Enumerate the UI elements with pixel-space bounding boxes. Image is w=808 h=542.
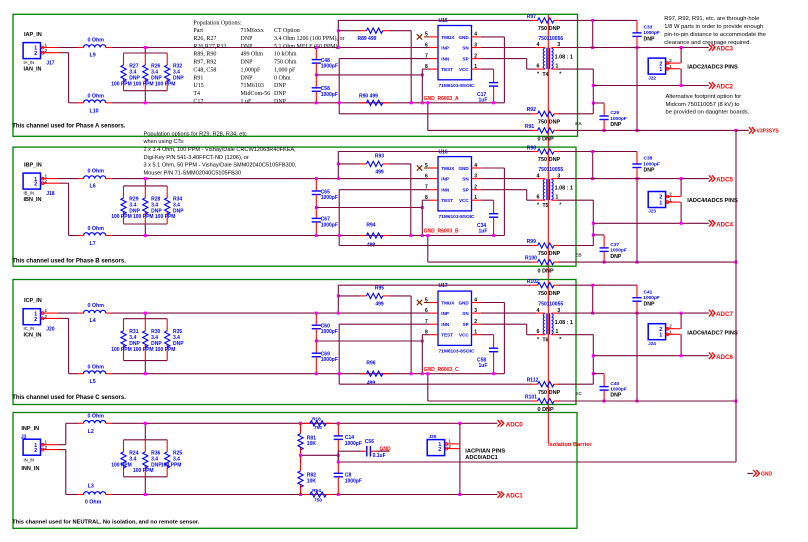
svg-text:C37: C37 bbox=[610, 242, 619, 248]
svg-text:100 PPM: 100 PPM bbox=[111, 214, 132, 220]
svg-text:4: 4 bbox=[474, 163, 477, 169]
svg-text:71M6xxx: 71M6xxx bbox=[241, 28, 264, 34]
svg-text:IADC4/IADC5 PINS: IADC4/IADC5 PINS bbox=[687, 198, 738, 204]
svg-text:This channel used for Phase C: This channel used for Phase C sensors. bbox=[12, 395, 126, 401]
svg-text:1000pF: 1000pF bbox=[643, 161, 660, 167]
svg-text:Mouser P/N 71-SMM02040C5105FB3: Mouser P/N 71-SMM02040C5105FB30 bbox=[144, 170, 242, 176]
svg-text:ADC7: ADC7 bbox=[716, 311, 733, 318]
svg-text:V3P3SYS: V3P3SYS bbox=[757, 129, 780, 135]
svg-text:ICN_IN: ICN_IN bbox=[24, 332, 42, 338]
svg-text:3.4 Ohm 1206 (100 PPM), or: 3.4 Ohm 1206 (100 PPM), or bbox=[274, 35, 345, 42]
svg-text:2: 2 bbox=[34, 448, 37, 454]
svg-text:ADC3: ADC3 bbox=[716, 46, 733, 53]
svg-text:GND: GND bbox=[761, 472, 773, 478]
svg-text:Digi-Key P/N 541-3.40FFCT-ND (: Digi-Key P/N 541-3.40FFCT-ND (1206), or bbox=[144, 155, 250, 161]
svg-text:C40: C40 bbox=[610, 381, 619, 387]
svg-text:ADC2: ADC2 bbox=[716, 84, 733, 91]
svg-text:DNP: DNP bbox=[644, 37, 655, 43]
svg-text:0 DNP: 0 DNP bbox=[538, 137, 555, 143]
svg-text:0 DNP: 0 DNP bbox=[538, 268, 555, 274]
svg-text:EB: EB bbox=[575, 253, 582, 258]
svg-text:INP: INP bbox=[441, 46, 449, 51]
svg-text:TMUX: TMUX bbox=[441, 35, 455, 40]
svg-text:100 PPM: 100 PPM bbox=[111, 81, 132, 87]
svg-text:VCC: VCC bbox=[459, 333, 469, 338]
svg-text:DNP: DNP bbox=[241, 36, 254, 42]
svg-text:1000pF: 1000pF bbox=[321, 195, 338, 201]
svg-text:1: 1 bbox=[474, 64, 477, 70]
svg-text:R97: R97 bbox=[527, 14, 536, 20]
svg-text:0 Ohm: 0 Ohm bbox=[88, 38, 105, 44]
svg-text:1000pF: 1000pF bbox=[345, 478, 362, 484]
svg-text:4: 4 bbox=[537, 308, 540, 314]
svg-text:GND_R6003_C: GND_R6003_C bbox=[424, 367, 459, 373]
svg-text:R26, R27: R26, R27 bbox=[193, 36, 216, 42]
svg-text:0 Ohm: 0 Ohm bbox=[85, 499, 102, 505]
svg-text:DNP: DNP bbox=[274, 91, 287, 97]
svg-text:R97, R92, R91, etc. are throug: R97, R92, R91, etc. are through-hole bbox=[664, 16, 759, 22]
svg-text:750110056: 750110056 bbox=[538, 36, 563, 42]
svg-text:T5: T5 bbox=[543, 203, 549, 209]
svg-text:1: 1 bbox=[474, 330, 477, 336]
svg-text:R90 499: R90 499 bbox=[359, 94, 378, 100]
svg-text:6: 6 bbox=[425, 42, 428, 48]
svg-text:L10: L10 bbox=[90, 108, 99, 114]
svg-text:SN: SN bbox=[462, 46, 469, 51]
svg-text:0 Ohm: 0 Ohm bbox=[88, 303, 105, 309]
svg-text:MidCom-56: MidCom-56 bbox=[241, 91, 271, 97]
svg-text:750 DNP: 750 DNP bbox=[538, 157, 561, 163]
svg-text:1000pF: 1000pF bbox=[610, 386, 627, 392]
svg-text:ICP_IN: ICP_IN bbox=[24, 298, 42, 304]
svg-text:GND: GND bbox=[380, 446, 392, 452]
svg-text:100 PPM: 100 PPM bbox=[111, 462, 132, 468]
svg-text:J3: J3 bbox=[21, 434, 27, 440]
svg-text:4: 4 bbox=[537, 42, 540, 48]
svg-text:GND_R6003_B: GND_R6003_B bbox=[424, 229, 459, 235]
svg-text:This channel used for NEUTRAL.: This channel used for NEUTRAL. No isolat… bbox=[12, 520, 199, 526]
svg-text:1: 1 bbox=[659, 333, 662, 339]
svg-text:R101: R101 bbox=[525, 394, 537, 400]
svg-text:T4: T4 bbox=[193, 91, 200, 97]
svg-text:DNP: DNP bbox=[241, 44, 254, 50]
svg-text:J17: J17 bbox=[46, 61, 55, 67]
svg-text:IA_IN: IA_IN bbox=[24, 60, 34, 65]
svg-text:R112: R112 bbox=[527, 378, 539, 384]
svg-text:CT Option: CT Option bbox=[274, 28, 300, 34]
svg-text:SP: SP bbox=[463, 188, 469, 193]
svg-text:Isolation Barrier: Isolation Barrier bbox=[548, 442, 592, 448]
svg-text:L3: L3 bbox=[88, 484, 94, 490]
svg-text:ADC5: ADC5 bbox=[716, 177, 733, 184]
svg-text:7: 7 bbox=[425, 185, 428, 191]
svg-text:100 PPM: 100 PPM bbox=[133, 468, 154, 474]
svg-text:10K: 10K bbox=[307, 478, 317, 484]
svg-text:J25: J25 bbox=[429, 434, 437, 439]
svg-text:R93: R93 bbox=[375, 153, 384, 159]
svg-text:3: 3 bbox=[474, 173, 477, 179]
svg-text:2: 2 bbox=[438, 447, 441, 453]
svg-text:GND: GND bbox=[458, 35, 469, 40]
svg-text:IADC6/IADC7 PINS: IADC6/IADC7 PINS bbox=[687, 330, 738, 336]
svg-text:1.08 : 1: 1.08 : 1 bbox=[555, 320, 573, 326]
svg-text:INP: INP bbox=[441, 311, 449, 316]
svg-text:750 DNP: 750 DNP bbox=[538, 291, 561, 297]
svg-text:750110055: 750110055 bbox=[538, 302, 563, 308]
svg-text:6: 6 bbox=[425, 308, 428, 314]
svg-text:SP: SP bbox=[463, 57, 469, 62]
svg-text:DNP: DNP bbox=[610, 122, 621, 128]
svg-text:C29: C29 bbox=[610, 110, 619, 116]
svg-text:6: 6 bbox=[425, 173, 428, 179]
svg-text:R91: R91 bbox=[193, 75, 203, 81]
svg-text:71M6103-8SOIC: 71M6103-8SOIC bbox=[439, 214, 476, 220]
svg-text:1000pF: 1000pF bbox=[321, 222, 338, 228]
svg-text:IACP/IAN PINS: IACP/IAN PINS bbox=[465, 449, 505, 455]
svg-text:DNP: DNP bbox=[274, 83, 287, 89]
svg-text:1000pF: 1000pF bbox=[345, 441, 362, 447]
svg-text:SN: SN bbox=[462, 177, 469, 182]
svg-text:ADC0/ADC1: ADC0/ADC1 bbox=[465, 455, 498, 461]
svg-text:100 PPM: 100 PPM bbox=[155, 81, 176, 87]
svg-text:1/8 W parts in order to provid: 1/8 W parts in order to provide enough bbox=[664, 24, 763, 30]
svg-text:1,000 pF: 1,000 pF bbox=[274, 68, 296, 74]
svg-text:71M6103-8SOIC: 71M6103-8SOIC bbox=[439, 348, 476, 354]
svg-text:DNP: DNP bbox=[241, 75, 254, 81]
svg-text:J18: J18 bbox=[46, 191, 55, 197]
svg-text:R98: R98 bbox=[527, 145, 536, 151]
svg-text:IAP_IN: IAP_IN bbox=[24, 32, 42, 38]
svg-text:1.08 : 1: 1.08 : 1 bbox=[555, 54, 573, 60]
svg-text:DNP: DNP bbox=[644, 168, 655, 174]
svg-text:499 Ohm: 499 Ohm bbox=[241, 52, 264, 58]
svg-text:R95: R95 bbox=[375, 285, 384, 291]
svg-text:1000pF: 1000pF bbox=[321, 329, 338, 335]
svg-text:GND: GND bbox=[458, 166, 469, 171]
svg-text:C41: C41 bbox=[644, 289, 653, 295]
svg-text:INN_IN: INN_IN bbox=[21, 466, 39, 472]
svg-text:TEST: TEST bbox=[441, 333, 453, 338]
svg-text:DNP: DNP bbox=[610, 254, 621, 260]
svg-text:0 Ohm: 0 Ohm bbox=[88, 94, 105, 100]
svg-text:750 DNP: 750 DNP bbox=[538, 251, 561, 257]
svg-text:DNP: DNP bbox=[274, 99, 287, 105]
svg-text:2: 2 bbox=[474, 319, 477, 325]
svg-text:TMUX: TMUX bbox=[441, 166, 455, 171]
svg-text:2: 2 bbox=[34, 51, 37, 57]
svg-text:100 PPM: 100 PPM bbox=[155, 214, 176, 220]
svg-text:8: 8 bbox=[425, 330, 428, 336]
svg-text:R91: R91 bbox=[525, 124, 534, 130]
svg-text:ADC0: ADC0 bbox=[506, 421, 523, 428]
svg-text:U17: U17 bbox=[439, 283, 448, 289]
svg-text:3: 3 bbox=[474, 42, 477, 48]
svg-text:J22: J22 bbox=[648, 75, 656, 80]
svg-text:when using CTs:: when using CTs: bbox=[143, 139, 185, 145]
svg-text:750110055: 750110055 bbox=[538, 167, 563, 173]
svg-text:2 x 3.4 Ohm, 100 PPM - Vishay/: 2 x 3.4 Ohm, 100 PPM - Vishay/Dale CRCW1… bbox=[144, 147, 297, 153]
svg-text:1: 1 bbox=[659, 201, 662, 207]
svg-text:L6: L6 bbox=[90, 183, 96, 189]
svg-text:Population Options:: Population Options: bbox=[193, 20, 242, 26]
svg-text:R26,R27,R32: R26,R27,R32 bbox=[193, 44, 226, 50]
svg-text:R100: R100 bbox=[525, 256, 537, 262]
svg-text:R89 499: R89 499 bbox=[358, 36, 377, 42]
svg-text:750 DNP: 750 DNP bbox=[538, 26, 561, 32]
svg-text:750: 750 bbox=[314, 425, 322, 431]
svg-text:71M6103-8SOIC: 71M6103-8SOIC bbox=[439, 83, 476, 89]
svg-text:6: 6 bbox=[537, 195, 540, 201]
svg-text:499: 499 bbox=[375, 301, 384, 307]
svg-text:INN: INN bbox=[441, 57, 450, 62]
svg-text:IN_IN: IN_IN bbox=[24, 458, 35, 463]
svg-text:U15: U15 bbox=[439, 18, 448, 24]
svg-text:750: 750 bbox=[314, 498, 322, 504]
svg-text:L9: L9 bbox=[90, 52, 96, 58]
svg-text:VCC: VCC bbox=[459, 198, 469, 203]
svg-text:100 PPM: 100 PPM bbox=[133, 214, 154, 220]
svg-text:L2: L2 bbox=[88, 429, 94, 435]
svg-text:8: 8 bbox=[425, 195, 428, 201]
svg-text:C38: C38 bbox=[644, 156, 653, 162]
svg-text:L5: L5 bbox=[90, 379, 96, 385]
svg-text:clearance and creepage require: clearance and creepage required. bbox=[664, 40, 751, 46]
svg-text:IC_IN: IC_IN bbox=[24, 326, 35, 331]
svg-text:T6: T6 bbox=[543, 338, 549, 344]
svg-text:4: 4 bbox=[537, 173, 540, 179]
svg-text:TEST: TEST bbox=[441, 198, 453, 203]
svg-text:VCC: VCC bbox=[459, 67, 469, 72]
svg-text:1000pF: 1000pF bbox=[610, 248, 627, 254]
svg-text:IAN_IN: IAN_IN bbox=[24, 66, 42, 72]
svg-text:U16: U16 bbox=[439, 149, 448, 155]
svg-text:T4: T4 bbox=[543, 72, 549, 78]
svg-text:1000pF: 1000pF bbox=[321, 64, 338, 70]
svg-text:Alternative footprint option f: Alternative footprint option for bbox=[666, 94, 742, 100]
svg-text:499: 499 bbox=[367, 381, 376, 387]
svg-text:0 Ohm: 0 Ohm bbox=[88, 169, 105, 175]
svg-text:0 Ohm: 0 Ohm bbox=[88, 364, 105, 370]
svg-text:IADC2/IADC3 PINS: IADC2/IADC3 PINS bbox=[687, 65, 738, 71]
svg-text:SP: SP bbox=[463, 322, 469, 327]
svg-text:0.1uF: 0.1uF bbox=[373, 453, 386, 459]
svg-text:DNP: DNP bbox=[644, 301, 655, 307]
svg-text:1uF: 1uF bbox=[479, 363, 488, 369]
svg-text:IBN_IN: IBN_IN bbox=[24, 197, 42, 203]
svg-text:0 Ohm: 0 Ohm bbox=[274, 75, 291, 81]
svg-text:1 uF: 1 uF bbox=[241, 99, 253, 105]
svg-text:1: 1 bbox=[474, 195, 477, 201]
svg-text:TMUX: TMUX bbox=[441, 301, 455, 306]
svg-text:0 Ohm: 0 Ohm bbox=[88, 413, 105, 419]
svg-text:1uF: 1uF bbox=[479, 98, 488, 104]
svg-text:DNP: DNP bbox=[610, 393, 621, 399]
svg-text:750 DNP: 750 DNP bbox=[538, 120, 561, 126]
svg-text:C56: C56 bbox=[365, 439, 374, 445]
svg-text:3 x 5.1 Ohm, 50 PPM - Vishay/D: 3 x 5.1 Ohm, 50 PPM - Vishay/Dale SMM020… bbox=[144, 163, 297, 169]
svg-text:6: 6 bbox=[537, 329, 540, 335]
svg-text:R97, R92: R97, R92 bbox=[193, 60, 216, 66]
svg-text:750 Ohm: 750 Ohm bbox=[274, 60, 297, 66]
svg-text:L4: L4 bbox=[90, 318, 96, 324]
svg-text:U15: U15 bbox=[193, 83, 203, 89]
svg-text:DNP: DNP bbox=[241, 60, 254, 66]
svg-text:2: 2 bbox=[34, 317, 37, 323]
svg-text:4: 4 bbox=[474, 297, 477, 303]
svg-text:1000pF: 1000pF bbox=[643, 30, 660, 36]
svg-text:1000pF: 1000pF bbox=[643, 295, 660, 301]
svg-text:R92: R92 bbox=[527, 107, 536, 113]
svg-text:2: 2 bbox=[474, 53, 477, 59]
svg-text:100 PPM: 100 PPM bbox=[161, 462, 182, 468]
svg-text:71M6103: 71M6103 bbox=[241, 83, 264, 89]
svg-text:1: 1 bbox=[659, 67, 662, 73]
svg-text:Population options for R29, R2: Population options for R29, R28, R34, et… bbox=[144, 131, 247, 137]
svg-text:1000pF: 1000pF bbox=[321, 357, 338, 363]
svg-text:1uF: 1uF bbox=[479, 229, 488, 235]
svg-text:R96: R96 bbox=[366, 361, 375, 367]
svg-text:be provided on daughter boards: be provided on daughter boards. bbox=[666, 110, 750, 116]
svg-text:SN: SN bbox=[462, 311, 469, 316]
svg-text:EC: EC bbox=[575, 391, 582, 396]
svg-text:0 Ohm: 0 Ohm bbox=[88, 226, 105, 232]
svg-text:8: 8 bbox=[425, 64, 428, 70]
svg-text:INN: INN bbox=[441, 322, 450, 327]
svg-text:R94: R94 bbox=[366, 223, 375, 229]
svg-text:C17: C17 bbox=[193, 99, 203, 105]
svg-text:2: 2 bbox=[34, 182, 37, 188]
svg-text:This channel used for Phase A: This channel used for Phase A sensors. bbox=[12, 124, 126, 130]
svg-text:ADC4: ADC4 bbox=[716, 221, 733, 228]
svg-text:IBP_IN: IBP_IN bbox=[24, 163, 42, 169]
svg-text:This channel used for Phase B: This channel used for Phase B sensors. bbox=[12, 259, 126, 265]
svg-text:GND_R6003_A: GND_R6003_A bbox=[424, 96, 459, 102]
svg-text:J24: J24 bbox=[648, 341, 656, 346]
svg-text:pin-to-pin distance to accommo: pin-to-pin distance to accommodate the bbox=[664, 32, 766, 38]
svg-text:1,000pF: 1,000pF bbox=[241, 68, 262, 74]
svg-text:750 DNP: 750 DNP bbox=[538, 390, 561, 396]
svg-text:INN: INN bbox=[441, 188, 450, 193]
svg-text:ADC1: ADC1 bbox=[506, 493, 523, 500]
svg-text:INP: INP bbox=[441, 177, 449, 182]
svg-text:100 PPM: 100 PPM bbox=[155, 347, 176, 353]
svg-text:5.1 Ohm MELF (50 PPM): 5.1 Ohm MELF (50 PPM) bbox=[274, 43, 338, 50]
svg-text:J20: J20 bbox=[46, 327, 55, 333]
svg-text:100 PPM: 100 PPM bbox=[133, 81, 154, 87]
svg-text:10 kOhm: 10 kOhm bbox=[274, 52, 297, 58]
svg-text:1.08 : 1: 1.08 : 1 bbox=[555, 185, 573, 191]
svg-text:7: 7 bbox=[425, 319, 428, 325]
svg-text:TEST: TEST bbox=[441, 67, 453, 72]
svg-text:7: 7 bbox=[425, 53, 428, 59]
svg-text:EA: EA bbox=[575, 121, 582, 126]
svg-text:L7: L7 bbox=[90, 241, 96, 247]
svg-text:2: 2 bbox=[474, 185, 477, 191]
svg-text:R99: R99 bbox=[527, 239, 536, 245]
svg-text:1000pF: 1000pF bbox=[321, 92, 338, 98]
svg-text:J23: J23 bbox=[648, 209, 656, 214]
svg-text:10K: 10K bbox=[307, 441, 317, 447]
svg-text:IB_IN: IB_IN bbox=[24, 190, 34, 195]
svg-text:3: 3 bbox=[474, 308, 477, 314]
svg-text:4: 4 bbox=[474, 32, 477, 38]
svg-text:R102: R102 bbox=[527, 279, 539, 285]
svg-text:1000pF: 1000pF bbox=[610, 116, 627, 122]
svg-text:INP_IN: INP_IN bbox=[21, 426, 39, 432]
svg-text:499: 499 bbox=[375, 169, 384, 175]
svg-text:C33: C33 bbox=[644, 25, 653, 31]
svg-text:C48, C58: C48, C58 bbox=[193, 68, 216, 74]
svg-text:100 PPM: 100 PPM bbox=[111, 347, 132, 353]
svg-text:ADC6: ADC6 bbox=[716, 354, 733, 361]
svg-text:Part: Part bbox=[193, 28, 203, 34]
svg-text:GND: GND bbox=[458, 301, 469, 306]
svg-text:Midcom 750110057 (8 kV) to: Midcom 750110057 (8 kV) to bbox=[666, 102, 740, 108]
svg-text:R89, R90: R89, R90 bbox=[193, 52, 216, 58]
svg-text:100 PPM: 100 PPM bbox=[133, 347, 154, 353]
svg-text:6: 6 bbox=[537, 64, 540, 70]
